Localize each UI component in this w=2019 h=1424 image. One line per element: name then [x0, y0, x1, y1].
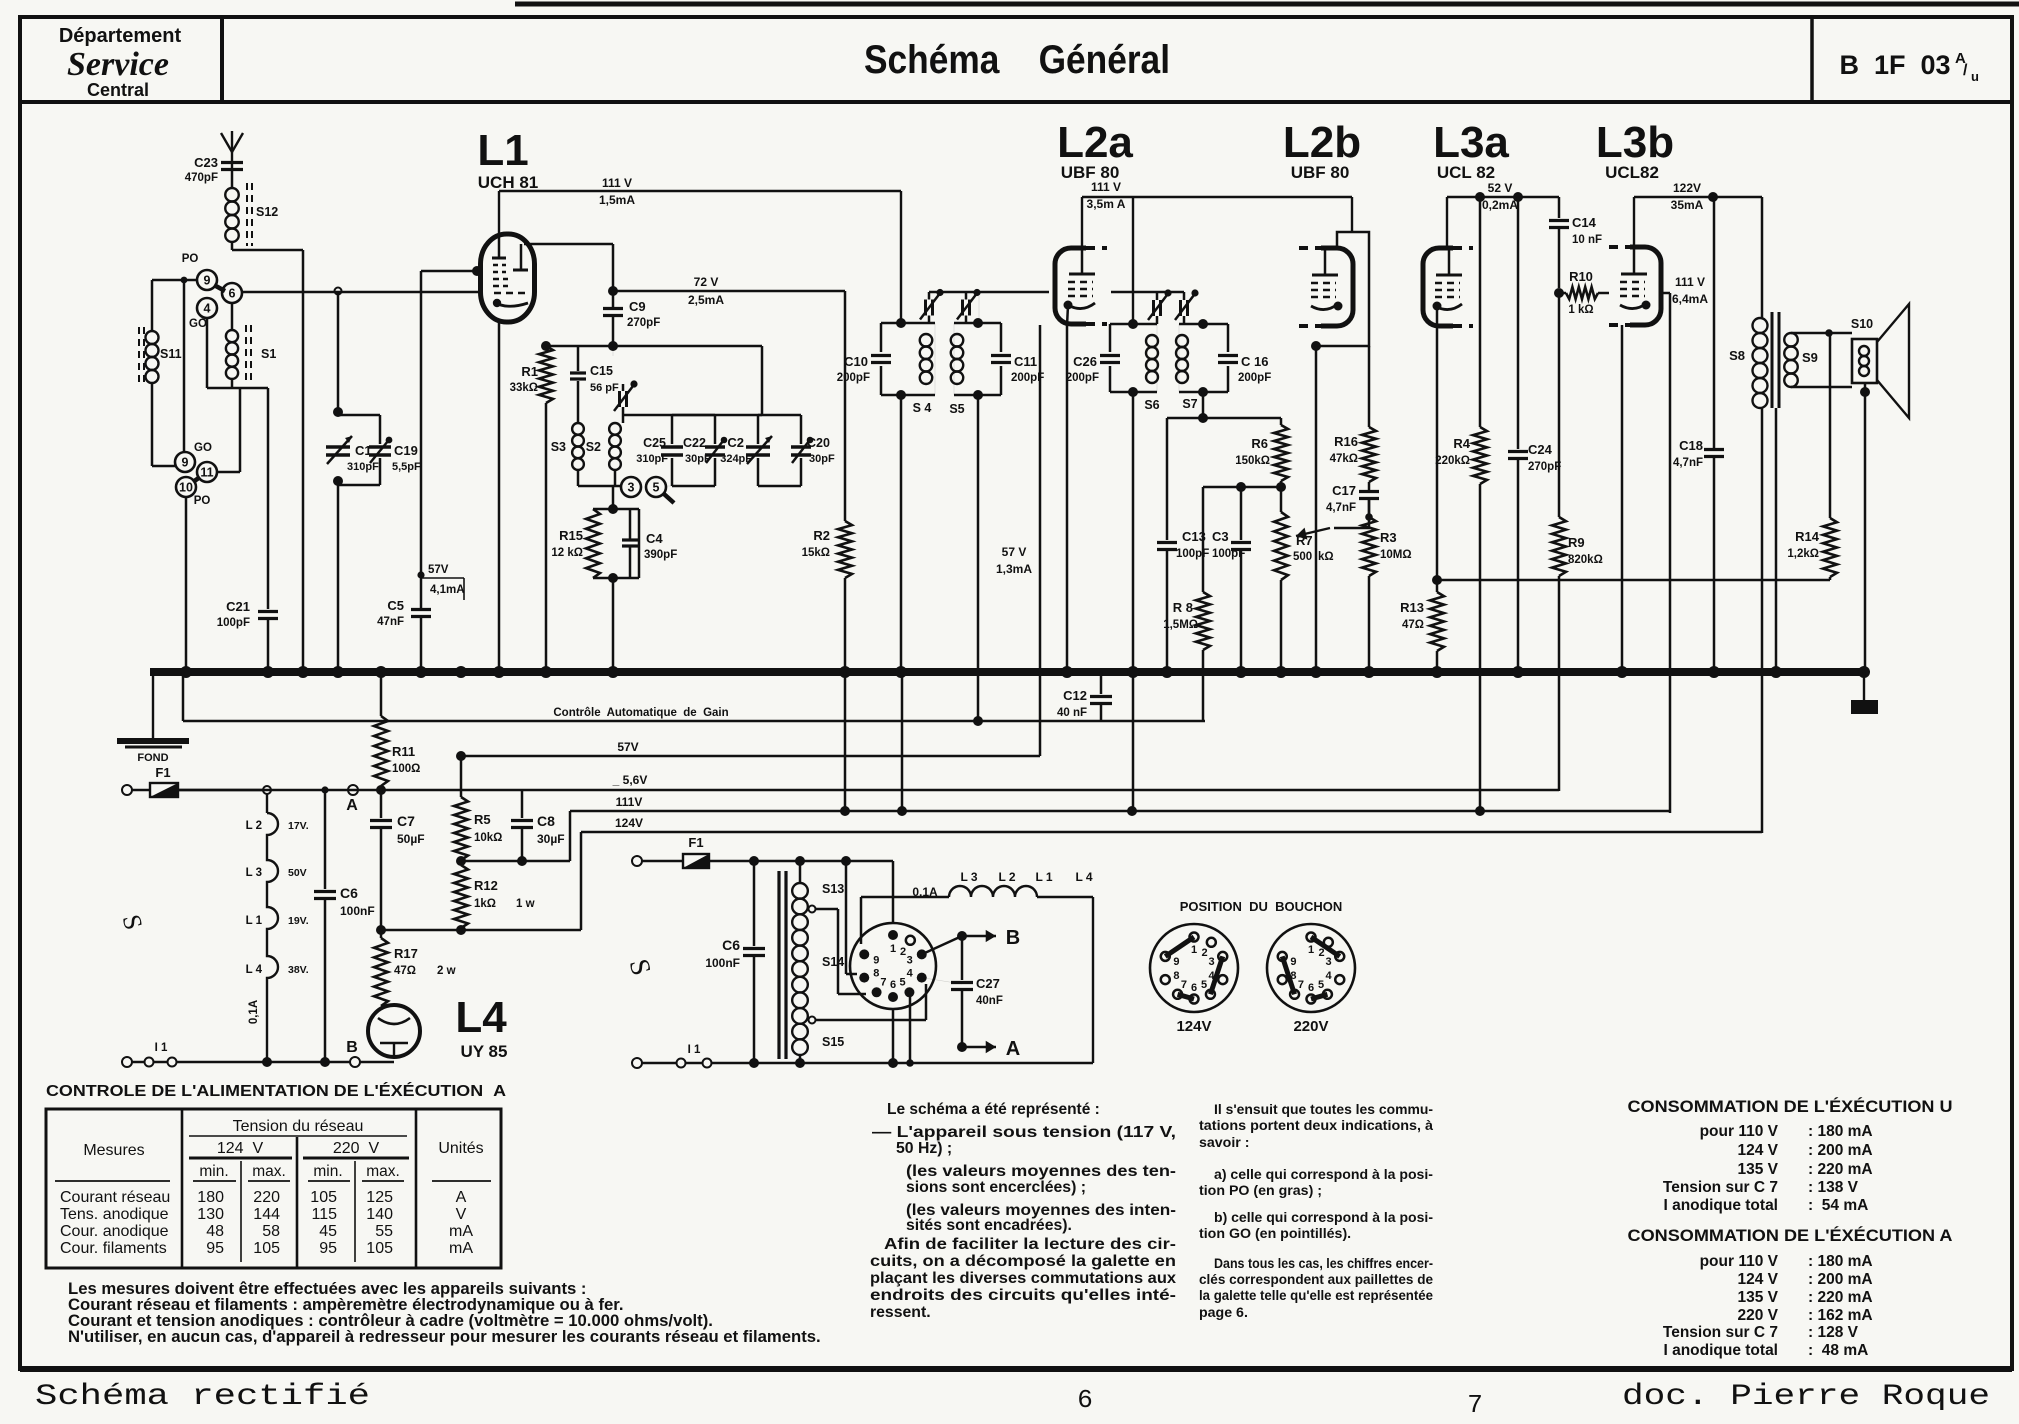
wire CAG riser: [182, 672, 185, 721]
rail 72V: [613, 290, 845, 293]
svg-text:200pF: 200pF: [1238, 372, 1271, 384]
svg-text:124V: 124V: [615, 816, 643, 830]
capacitor C27: [951, 936, 1003, 1047]
box C20: [758, 415, 801, 486]
svg-text:4: 4: [1326, 970, 1333, 982]
svg-text:124 V: 124 V: [1737, 1142, 1778, 1159]
socket 124V: [1150, 924, 1238, 1035]
svg-text:F1: F1: [688, 835, 703, 850]
svg-text:111 V: 111 V: [1675, 275, 1705, 289]
svg-text:C27: C27: [976, 976, 1000, 991]
svg-text:tion GO (en pointillés).: tion GO (en pointillés).: [1199, 1226, 1351, 1242]
label I1 mid: [688, 1044, 701, 1056]
wire tank to R15: [608, 486, 618, 583]
svg-text:R6: R6: [1251, 436, 1268, 451]
svg-text:310pF: 310pF: [347, 461, 379, 473]
svg-text:L 3: L 3: [960, 870, 977, 884]
coil S4 winding: [920, 334, 933, 384]
header divider left box: [220, 17, 224, 102]
resistor R9: [1552, 517, 1603, 791]
svg-text:C8: C8: [537, 813, 555, 829]
mains squiggle left: [117, 911, 149, 932]
svg-text:72 V: 72 V: [694, 275, 719, 289]
trimmer S7: [1175, 289, 1199, 324]
svg-text:10: 10: [179, 481, 193, 495]
wire C17 to R7 arrow: [1334, 499, 1369, 528]
svg-text:C18: C18: [1679, 438, 1703, 453]
resistor R15: [551, 509, 600, 578]
node 52V C24: [1513, 192, 1523, 202]
svg-text:B: B: [346, 1039, 358, 1056]
svg-text:doc. Pierre Roque: doc. Pierre Roque: [1622, 1380, 1990, 1414]
node speaker bottom: [1860, 387, 1870, 397]
wire heater riser 845: [844, 672, 847, 811]
text col1 line 5: [906, 1179, 1086, 1196]
resistor R11: [374, 672, 420, 795]
table header min2: [313, 1163, 342, 1180]
svg-text:1 w: 1 w: [516, 898, 535, 910]
label UY85: [461, 1042, 508, 1061]
svg-text:R14: R14: [1795, 529, 1820, 544]
text col2 line 6: [1214, 1210, 1433, 1226]
contact 5: [646, 477, 666, 497]
wire transformer top: [799, 861, 802, 883]
tube L3b UCL82: [1609, 247, 1661, 325]
coil S6 winding: [1146, 335, 1158, 383]
labels chain V: [288, 820, 309, 976]
doc number B 1F 03 A/u: [1839, 50, 1979, 84]
wire speaker top: [1851, 341, 1853, 343]
svg-text:115: 115: [311, 1206, 337, 1223]
svg-text:S6: S6: [1144, 398, 1159, 412]
consommation U row I anodique total: [1663, 1197, 1868, 1214]
text col1 line 10: [870, 1270, 1176, 1287]
svg-text:savoir :: savoir :: [1199, 1135, 1249, 1151]
svg-text:FOND: FOND: [137, 752, 168, 764]
svg-text:100pF: 100pF: [1176, 548, 1209, 560]
svg-text:R4: R4: [1453, 436, 1470, 451]
table header min1: [199, 1163, 228, 1180]
svg-text:Dans tous les cas, les chiffre: Dans tous les cas, les chiffres encer-: [1214, 1256, 1433, 1272]
svg-text:C26: C26: [1073, 354, 1097, 369]
svg-text:9: 9: [873, 954, 879, 966]
rail 111V heater: [570, 795, 1670, 816]
svg-text:1 kΩ: 1 kΩ: [1568, 304, 1593, 316]
label UBF80 b: [1291, 163, 1350, 182]
label L2b: [1283, 118, 1361, 167]
core S8: [1771, 312, 1774, 408]
wire tank bottoms: [666, 485, 672, 487]
wire F1 mid right: [709, 856, 893, 866]
text col1 line 8: [884, 1236, 1176, 1253]
consommation U row pour 110 V: [1700, 1123, 1873, 1140]
label S6: [1144, 398, 1159, 412]
svg-text:S5: S5: [949, 402, 964, 416]
coil S8 primary: [1729, 318, 1767, 408]
capacitor C8: [511, 790, 565, 861]
autotransformer winding: [792, 883, 808, 1055]
svg-text:max.: max.: [366, 1163, 400, 1180]
svg-text:cuits, on a décomposé la galet: cuits, on a décomposé la galette en: [870, 1253, 1176, 1270]
svg-text:L 1: L 1: [246, 915, 263, 927]
label UBF80 a: [1061, 163, 1120, 182]
svg-text:R5: R5: [474, 812, 491, 827]
table verticals: [182, 1109, 416, 1268]
node S5 bottom: [973, 390, 983, 400]
svg-text:N'utiliser, en aucun cas, d'ap: N'utiliser, en aucun cas, d'appareil à r…: [68, 1327, 821, 1346]
wire x1167 drop: [1166, 418, 1169, 540]
svg-text:12 kΩ: 12 kΩ: [551, 547, 583, 559]
node A out: [957, 1042, 967, 1052]
svg-text:5: 5: [1318, 979, 1324, 991]
svg-text:4,1mA: 4,1mA: [430, 584, 465, 596]
wire S11 riser: [151, 280, 154, 331]
trimmer S4: [920, 289, 944, 323]
svg-text:Mesures: Mesures: [83, 1142, 144, 1159]
consommation A row Tension sur C 7: [1663, 1324, 1859, 1341]
svg-text:2 w: 2 w: [437, 965, 456, 977]
svg-text:Le schéma a été représenté :: Le schéma a été représenté :: [887, 1101, 1100, 1118]
svg-text:A: A: [1006, 1038, 1020, 1060]
svg-text:1: 1: [1308, 944, 1314, 956]
wire osc tank top: [612, 346, 614, 356]
label UCL82 a: [1437, 163, 1495, 182]
svg-text:L2a: L2a: [1057, 118, 1133, 167]
svg-text:4,7nF: 4,7nF: [1326, 502, 1356, 514]
svg-text:15kΩ: 15kΩ: [802, 547, 830, 559]
svg-text:: 220 mA: : 220 mA: [1808, 1161, 1873, 1178]
mains squiggle mid: [623, 956, 657, 979]
svg-text:C20: C20: [807, 436, 830, 450]
svg-text:220kΩ: 220kΩ: [1435, 455, 1470, 467]
consommation U row 124 V: [1737, 1142, 1872, 1159]
text col1 line 7: [906, 1217, 1072, 1234]
resistor R13: [1400, 592, 1444, 672]
wire R1 to bus: [545, 403, 548, 672]
wire L2a anode: [1081, 197, 1083, 247]
svg-text:124 V: 124 V: [1737, 1271, 1778, 1288]
tube L1 UCH81: [481, 234, 535, 322]
ground right chassis: [1851, 672, 1878, 714]
switch bar 3-5: [664, 494, 674, 503]
svg-text:30pF: 30pF: [685, 453, 711, 465]
resistor R2: [802, 291, 852, 672]
capacitor C7: [370, 790, 425, 930]
label 122V 35mA: [1671, 181, 1704, 212]
table row Cour. filaments: [60, 1240, 473, 1257]
svg-text:200pF: 200pF: [1066, 372, 1099, 384]
svg-text:C22: C22: [683, 436, 706, 450]
node S7 bottom: [1198, 387, 1208, 397]
svg-text:6,4mA: 6,4mA: [1672, 292, 1708, 306]
svg-text:100pF: 100pF: [1212, 548, 1245, 560]
label 111V 1,5mA: [599, 176, 635, 207]
svg-text:111 V: 111 V: [602, 176, 632, 190]
label S14: [822, 955, 844, 969]
svg-text:L2b: L2b: [1283, 118, 1361, 167]
wire L3b cathode: [1621, 325, 1624, 672]
svg-text:L 2: L 2: [998, 870, 1015, 884]
svg-text:Service: Service: [67, 46, 169, 83]
svg-text:C19: C19: [394, 443, 418, 458]
node S5 top: [973, 318, 983, 328]
resistor R16: [1330, 346, 1376, 482]
svg-text:Il s'ensuit que toutes les com: Il s'ensuit que toutes les commu-: [1214, 1102, 1433, 1118]
arrow B: [962, 927, 1020, 949]
potentiometer R7: [1274, 487, 1288, 672]
svg-text:56 pF: 56 pF: [590, 382, 619, 394]
footer schema rectifie: [35, 1380, 370, 1414]
box S4: [881, 323, 935, 395]
wire S11 bottom: [152, 383, 175, 466]
svg-text:S12: S12: [256, 205, 278, 219]
svg-text:C15: C15: [590, 364, 613, 378]
svg-text:R3: R3: [1380, 530, 1397, 545]
svg-text:0,2mA: 0,2mA: [1482, 198, 1518, 212]
coil S11: [146, 331, 182, 383]
text col2 line 11: [1199, 1305, 1248, 1321]
svg-text:33kΩ: 33kΩ: [510, 382, 538, 394]
svg-text:130: 130: [197, 1206, 224, 1223]
socket 220V: [1267, 924, 1355, 1035]
label GO lower: [194, 442, 212, 454]
svg-text:C10: C10: [844, 354, 868, 369]
svg-text:105: 105: [253, 1240, 280, 1257]
text col1 line 11: [870, 1287, 1176, 1304]
capacitor C24: [1508, 197, 1561, 672]
svg-text:1,5mA: 1,5mA: [599, 193, 635, 207]
consommation A row 220 V: [1737, 1307, 1872, 1324]
coil S7 winding: [1176, 335, 1188, 383]
svg-text:A: A: [456, 1189, 467, 1206]
wire k L1 to bus: [498, 322, 501, 672]
svg-text:5: 5: [899, 976, 905, 988]
svg-text:I anodique total: I anodique total: [1663, 1342, 1778, 1359]
svg-text:: 200 mA: : 200 mA: [1808, 1142, 1873, 1159]
text col1 line 2: [872, 1124, 1176, 1141]
wire S4 to bus: [900, 395, 903, 672]
labels chain L: [246, 820, 263, 976]
capacitor C14: [1549, 197, 1602, 288]
box S5: [954, 323, 1001, 395]
wire L2a cathode 57V: [1039, 325, 1042, 756]
svg-text:6: 6: [890, 979, 896, 991]
svg-text:PO: PO: [182, 253, 199, 265]
resistor R15 box: [593, 509, 639, 578]
label S5: [949, 402, 964, 416]
label UCL82 b: [1605, 163, 1659, 182]
consommation A row 135 V: [1737, 1289, 1872, 1306]
switch bar 10-11: [193, 477, 200, 482]
rail 111V 3,5mA: [1082, 197, 1133, 324]
capacitor C21: [217, 599, 278, 629]
svg-text:Schéma Général: Schéma Général: [864, 38, 1170, 82]
wire pin3 B: [922, 931, 967, 954]
svg-text:220 V: 220 V: [333, 1140, 380, 1157]
wire pin4 right: [922, 978, 962, 984]
capacitor C11: [991, 354, 1044, 384]
resistor R12: [454, 865, 535, 928]
wire contact10 drop: [185, 497, 188, 670]
svg-text:144: 144: [253, 1206, 280, 1223]
svg-text:_ 5,6V: _ 5,6V: [612, 773, 648, 787]
svg-text:1,3mA: 1,3mA: [996, 562, 1032, 576]
capacitor C4: [622, 509, 677, 578]
svg-text:105: 105: [310, 1189, 337, 1206]
svg-text:7: 7: [1298, 979, 1304, 991]
svg-text:2: 2: [900, 946, 906, 958]
wire tap S13: [815, 909, 866, 994]
svg-text:C 16: C 16: [1241, 354, 1268, 369]
svg-text:Afin de faciliter la lecture d: Afin de faciliter la lecture des cir-: [884, 1236, 1176, 1253]
svg-text:S3: S3: [551, 440, 566, 454]
svg-text:L1: L1: [477, 126, 528, 175]
svg-text:C17: C17: [1332, 483, 1356, 498]
svg-text:R15: R15: [559, 528, 583, 543]
label C19: [392, 443, 421, 473]
svg-text:5: 5: [653, 481, 660, 495]
svg-text:: 138 V: : 138 V: [1808, 1179, 1859, 1196]
capacitor C20 trimmer: [791, 436, 835, 465]
wire R15 to bus: [612, 578, 615, 672]
capacitor C1 variable: [326, 436, 352, 464]
label L1: [477, 126, 528, 175]
label position du bouchon: [1180, 899, 1343, 914]
footer page 6: [1077, 1385, 1093, 1415]
resistor R8: [1163, 592, 1210, 721]
core dashes S12: [246, 183, 248, 246]
capacitor C16: [1218, 354, 1271, 384]
resistor R6: [1235, 418, 1288, 481]
svg-text:55: 55: [375, 1223, 393, 1240]
svg-text:CONSOMMATION DE L'ÉXÉCUTION U: CONSOMMATION DE L'ÉXÉCUTION U: [1628, 1097, 1953, 1116]
wire speaker to bus: [1864, 383, 1867, 672]
terminal B: [346, 1039, 360, 1067]
text col2 line 7: [1199, 1226, 1351, 1242]
svg-text:Courant réseau: Courant réseau: [60, 1189, 170, 1206]
svg-text:Contrôle Automatique de Gai: Contrôle Automatique de Gain: [553, 707, 728, 719]
wire transformer bottom: [795, 1055, 805, 1068]
contact 4: [197, 298, 217, 318]
svg-text:220V: 220V: [1293, 1018, 1328, 1035]
svg-text:S9: S9: [1802, 350, 1818, 365]
svg-text:UCL 82: UCL 82: [1437, 163, 1495, 182]
fuse F1 left: [122, 765, 178, 797]
wire L1 plate to C9: [524, 244, 613, 288]
svg-text:10MΩ: 10MΩ: [1380, 549, 1412, 561]
svg-text:S7: S7: [1182, 397, 1197, 411]
svg-text:1: 1: [1191, 944, 1197, 956]
consommation A row I anodique total: [1663, 1342, 1868, 1359]
wire R14 top: [1829, 333, 1832, 518]
label I1 left: [155, 1042, 168, 1054]
capacitor C26: [1066, 354, 1120, 384]
svg-text:C2: C2: [727, 435, 744, 450]
wire S9 top: [1791, 329, 1852, 337]
wire y487: [1203, 481, 1281, 492]
svg-text:Schéma rectifié: Schéma rectifié: [35, 1380, 370, 1414]
svg-text:A: A: [346, 797, 358, 814]
arrow A: [962, 1038, 1020, 1060]
wire S6 to bus: [1132, 392, 1135, 811]
wire R8 drop: [1202, 487, 1205, 592]
wire L3b screen: [1661, 293, 1670, 813]
svg-text:9: 9: [1290, 956, 1296, 968]
text col2 line 1: [1214, 1102, 1433, 1118]
svg-text:C24: C24: [1528, 442, 1553, 457]
tap S13: [809, 882, 845, 913]
svg-text:47Ω: 47Ω: [394, 965, 416, 977]
node PO switch: [182, 253, 199, 265]
wire y418: [1167, 417, 1281, 420]
wire S8 top: [1761, 197, 1764, 318]
capacitor C18: [1673, 197, 1724, 672]
svg-text:124V: 124V: [1176, 1018, 1211, 1035]
wire L3a cathode: [1432, 325, 1442, 592]
svg-text:111V: 111V: [616, 795, 643, 809]
svg-text:100pF: 100pF: [217, 617, 250, 629]
svg-text:140: 140: [366, 1206, 393, 1223]
rail 124V heater: [581, 816, 1762, 832]
svg-text:S2: S2: [586, 440, 601, 454]
svg-text:1,2kΩ: 1,2kΩ: [1787, 548, 1819, 560]
svg-text:L 1: L 1: [1035, 870, 1052, 884]
wire to pin8: [846, 861, 857, 974]
tube L2b UBF80: [1299, 248, 1353, 326]
capacitor C25: [636, 436, 683, 465]
resistor R5: [454, 757, 502, 860]
resistor R4: [1435, 197, 1487, 813]
text col2 line 4: [1214, 1167, 1433, 1183]
note line 3: [68, 1311, 713, 1330]
svg-text:47kΩ: 47kΩ: [1330, 453, 1358, 465]
antenna: [221, 131, 243, 171]
svg-text:I 1: I 1: [688, 1044, 701, 1056]
capacitor C17: [1326, 482, 1379, 514]
ground bus: [150, 668, 1864, 676]
label 72V 2,5mA: [688, 275, 724, 307]
footer doc pierre roque: [1622, 1380, 1990, 1414]
svg-text:u: u: [1971, 69, 1979, 84]
svg-text:100Ω: 100Ω: [392, 763, 420, 775]
tube L4 UY85: [368, 1005, 420, 1057]
svg-text:R13: R13: [1400, 600, 1424, 615]
svg-text:180: 180: [197, 1189, 224, 1206]
label L2a: [1057, 118, 1133, 167]
svg-text:270pF: 270pF: [627, 317, 660, 329]
svg-text:C9: C9: [629, 299, 646, 314]
svg-text:40nF: 40nF: [976, 995, 1003, 1007]
wire C1 box top: [333, 288, 343, 418]
label R7: [1293, 533, 1334, 563]
coil S5 winding: [951, 334, 964, 384]
box S7: [1179, 324, 1228, 392]
svg-text:tion PO (en gras) ;: tion PO (en gras) ;: [1199, 1183, 1322, 1199]
svg-text:Cour. anodique: Cour. anodique: [60, 1223, 169, 1240]
svg-text:4: 4: [204, 302, 211, 316]
svg-text:390pF: 390pF: [644, 549, 677, 561]
text col1 line 4: [906, 1163, 1176, 1180]
svg-text:5,5pF: 5,5pF: [392, 461, 421, 473]
svg-text:1,5MΩ: 1,5MΩ: [1163, 619, 1198, 631]
text col1 line 1: [887, 1101, 1100, 1118]
bus left drop: [152, 672, 154, 738]
core dashes S1: [245, 325, 247, 385]
label L3a: [1433, 118, 1509, 167]
svg-text:Tens. anodique: Tens. anodique: [60, 1206, 169, 1223]
wire L1 anode top: [498, 191, 500, 234]
svg-text:3: 3: [907, 954, 913, 966]
